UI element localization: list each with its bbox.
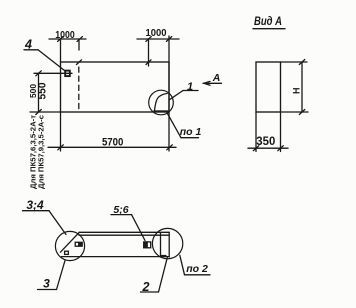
underline of label 4: [24, 49, 38, 51]
svg-text:Н: Н: [292, 88, 302, 95]
H dimension line: [301, 62, 303, 112]
tick at top edge crossing x=148.5: [146, 60, 151, 65]
bottom dimension line 5700: [48, 146, 176, 148]
slab bottom extension to left: [30, 111, 61, 113]
leader 3;4 to left circle: [49, 211, 66, 235]
svg-text:3;4: 3;4: [26, 198, 44, 212]
underline по 2: [185, 274, 211, 276]
chamfer curve inside circle 1: [155, 93, 168, 110]
svg-text:по 2: по 2: [186, 263, 208, 275]
right end plate inner line: [160, 233, 162, 257]
detail circle right (по 2): [152, 228, 182, 258]
leader from circle 1 to flag 1: [169, 91, 183, 100]
tick at (148.5,39): [146, 37, 152, 42]
extension line at 1000 from right edge: [148, 39, 150, 66]
left dimension: horizontal line at loop level: [34, 72, 72, 74]
lifting loop: filled square: [65, 71, 70, 77]
svg-text:А: А: [212, 72, 221, 84]
view arrow A: arrowhead: [204, 81, 210, 85]
tick at (256,148.7): [253, 146, 258, 151]
detail circle 1 (top right corner of plan): [149, 90, 174, 115]
tick at (38.5,72.5): [36, 71, 42, 76]
right anchor plate: [144, 242, 151, 248]
slab bottom edge: [62, 256, 170, 258]
left anchor plate: [75, 242, 82, 246]
title underline: [253, 28, 285, 30]
tick at (302,112): [299, 110, 305, 115]
flag line of label 1: [183, 90, 198, 92]
dimension line 1000 (left): [49, 38, 86, 40]
right anchor plate divider: [146, 242, 148, 248]
svg-text:Для ПК57,9,3,5-2А-с: Для ПК57,9,3,5-2А-с: [37, 115, 46, 189]
diagonal break in left circle: [60, 232, 79, 252]
top edge extension to H dimension: [281, 61, 308, 63]
leader по 2 from right circle: [180, 255, 185, 274]
left edge extension below: [255, 112, 257, 152]
extension line left edge up: [60, 39, 62, 62]
dimension line 350: [248, 147, 288, 149]
leader 3 to left circle bottom: [57, 261, 66, 290]
leader 2 to slab bottom corner: [159, 258, 168, 293]
underline 5;6: [111, 214, 132, 216]
bottom edge extension to H dimension: [281, 111, 309, 113]
slab outline (plan): [61, 62, 170, 112]
tick at (169,39): [166, 37, 172, 42]
svg-text:1000: 1000: [55, 30, 75, 41]
underline по 1: [181, 137, 199, 139]
svg-text:по 1: по 1: [180, 126, 202, 138]
dimension line 1000 (right): [137, 38, 179, 40]
extension stub above dashed line: [78, 39, 80, 50]
tick at (60,39): [58, 37, 64, 42]
right edge extension above corner: [168, 36, 170, 62]
underline 3: [38, 289, 57, 291]
left anchor plate divider: [78, 242, 80, 246]
svg-text:550: 550: [37, 83, 49, 100]
right end bottom thick corner: [160, 255, 167, 257]
tick at top edge crossing x=79: [77, 60, 82, 65]
tick at (60.5,148.5): [58, 145, 64, 150]
tick at (280.5,148.7): [278, 146, 284, 151]
view arrow A: line: [204, 82, 222, 84]
svg-text:1000: 1000: [146, 28, 167, 39]
dashed axis line at 1000 from left edge: [78, 67, 80, 112]
underline 2: [141, 291, 159, 293]
tick at (80,39): [77, 37, 83, 42]
svg-text:5700: 5700: [102, 136, 124, 148]
tick at (302,62): [299, 60, 305, 65]
left vertical dimension line: [38, 73, 40, 112]
right anchor plate dark half: [144, 242, 147, 247]
detail circle left (по 3;4): [55, 231, 84, 260]
left extension below slab: [60, 112, 62, 151]
slab top edge (double line): [79, 231, 169, 233]
svg-text:3: 3: [43, 277, 50, 291]
svg-text:1: 1: [187, 81, 193, 93]
svg-text:Вид А: Вид А: [254, 16, 282, 28]
underline 3;4: [23, 210, 50, 212]
side view rectangle: [256, 62, 281, 112]
slab top edge inner line: [79, 234, 169, 236]
small open square below diagonal (loop end): [65, 251, 69, 254]
leader from circle 1 to по 1: [167, 113, 181, 137]
leader 5;6 to anchor plate: [132, 215, 146, 241]
tick at (38.5,112): [36, 110, 42, 115]
right end plate outer line: [168, 232, 170, 257]
right edge long extension (through detail circle down to dim): [168, 62, 170, 151]
left anchor plate dark half: [79, 243, 82, 246]
leader from label 4 to loop: [38, 50, 65, 71]
tick at (169.5,148.5): [167, 145, 173, 150]
right edge extension below: [280, 112, 282, 152]
thick weld line inside circle 1: [154, 110, 169, 112]
